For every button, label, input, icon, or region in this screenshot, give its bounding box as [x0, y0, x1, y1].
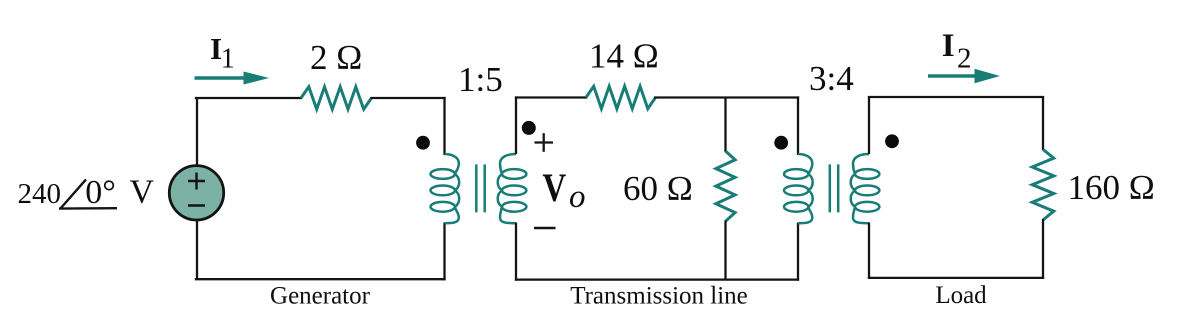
- svg-text:Generator: Generator: [270, 283, 371, 310]
- resistor R 2ohm: [301, 87, 372, 109]
- wire: 60ohm branch lower: [724, 221, 726, 280]
- svg-text:o: o: [569, 179, 586, 215]
- transformer T2 secondary dot: [885, 134, 899, 148]
- resistor R 60ohm: [716, 151, 735, 221]
- wire: generator loop right upper: [443, 97, 445, 155]
- wire: transmission loop top left segment: [515, 96, 587, 98]
- wire: generator loop left lower: [196, 220, 198, 280]
- svg-text:60 Ω: 60 Ω: [623, 169, 693, 208]
- transformer T2 primary coil: [784, 169, 808, 179]
- angle symbol: [60, 179, 86, 209]
- wire: transmission loop right lower: [797, 223, 799, 281]
- voltage source Vs 240V: [169, 166, 223, 220]
- wire: load loop left lower: [868, 223, 870, 280]
- resistor R 160ohm: [1032, 149, 1054, 220]
- wire: generator loop top right segment: [371, 97, 446, 99]
- transformer T1 core: [475, 164, 478, 212]
- wire: transmission loop top right segment: [654, 96, 799, 98]
- label minus of Vo: [534, 227, 556, 230]
- wire: generator loop bottom: [195, 278, 446, 280]
- svg-text:V: V: [543, 165, 567, 210]
- svg-text:1: 1: [221, 44, 235, 75]
- wire: load loop right lower: [1042, 219, 1044, 279]
- svg-text:2: 2: [957, 43, 972, 75]
- wire: load loop bottom: [868, 277, 1044, 279]
- voltage source minus sign: [188, 204, 205, 206]
- wire: generator loop left upper: [196, 98, 198, 166]
- wire: generator loop top left segment: [195, 97, 302, 99]
- transformer T1 primary coil: [431, 169, 455, 179]
- transformer T1 primary dot: [416, 136, 430, 150]
- transformer T2 secondary coil: [855, 169, 879, 179]
- transformer T2 core: [829, 164, 832, 212]
- current arrow I2: [928, 74, 978, 78]
- svg-text:I: I: [942, 28, 955, 64]
- transformer T1 secondary dot: [522, 121, 536, 135]
- svg-text:0°: 0°: [85, 174, 116, 211]
- transformer T1 secondary coil: [502, 169, 526, 179]
- wire: load loop left upper: [868, 96, 870, 154]
- current arrow I1: [195, 76, 248, 80]
- wire: load loop right upper: [1042, 96, 1044, 150]
- svg-text:240: 240: [18, 178, 62, 210]
- wire: 60ohm branch upper: [724, 98, 726, 153]
- svg-text:3:4: 3:4: [809, 59, 854, 98]
- wire: transmission loop left lower: [515, 223, 517, 281]
- svg-text:V: V: [130, 173, 155, 210]
- svg-text:Transmission line: Transmission line: [570, 283, 748, 310]
- voltage source plus sign: [188, 180, 205, 182]
- wire: transmission loop bottom: [515, 278, 799, 280]
- wire: transmission loop left upper: [515, 96, 517, 154]
- svg-text:160 Ω: 160 Ω: [1068, 168, 1155, 207]
- svg-text:1:5: 1:5: [458, 60, 503, 99]
- transformer T2 primary dot: [774, 136, 788, 150]
- wire: transmission loop right upper: [797, 96, 799, 155]
- wire: load loop top: [868, 96, 1044, 98]
- svg-text:14 Ω: 14 Ω: [589, 37, 659, 76]
- svg-text:2 Ω: 2 Ω: [310, 38, 362, 77]
- resistor R 14ohm: [586, 86, 656, 108]
- wire: generator loop right lower: [443, 223, 445, 281]
- svg-text:Load: Load: [935, 282, 987, 309]
- label plus of Vo: [535, 141, 554, 143]
